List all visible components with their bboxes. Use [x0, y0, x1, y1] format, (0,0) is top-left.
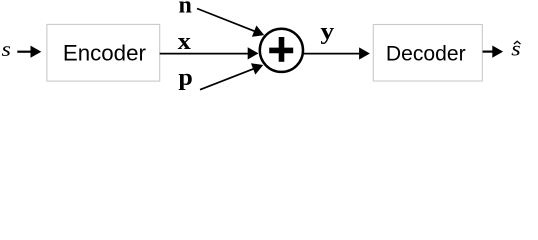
- arrowhead to s_hat: [492, 46, 503, 58]
- block Encoder: [47, 24, 160, 81]
- svg-text:y: y: [320, 17, 334, 44]
- label y: [320, 17, 334, 44]
- label x: [178, 27, 191, 55]
- plus sign vertical bar: [279, 37, 285, 62]
- arrowhead into Decoder: [359, 47, 370, 59]
- node s (input signal label): [1, 37, 11, 60]
- svg-text:n: n: [179, 0, 192, 18]
- summing junction circle: [260, 29, 303, 72]
- svg-text:Decoder: Decoder: [386, 42, 466, 65]
- arrowhead into summing node (p): [251, 59, 265, 74]
- svg-text:p: p: [178, 64, 192, 90]
- svg-text:Encoder: Encoder: [63, 40, 147, 65]
- svg-text:s: s: [511, 37, 521, 60]
- plus sign horizontal bar: [269, 48, 293, 54]
- node s_hat (reconstructed signal label): [511, 37, 521, 60]
- wire p (perturbation into summing node): [200, 69, 254, 90]
- arrowhead into summing node (n): [252, 25, 267, 40]
- wire Decoder to s_hat: [483, 50, 493, 52]
- block Decoder: [373, 25, 482, 82]
- wire x (Encoder to summing node): [160, 53, 250, 55]
- label p: [178, 64, 192, 90]
- svg-text:s: s: [1, 37, 11, 60]
- wire n (noise into summing node): [197, 9, 256, 32]
- arrowhead into Encoder: [31, 46, 42, 58]
- wire y (summing node to Decoder): [304, 53, 361, 55]
- svg-text:x: x: [178, 27, 191, 55]
- arrowhead into summing node (x): [248, 47, 259, 59]
- wire s to Encoder: [17, 51, 32, 53]
- hat of s_hat: [514, 41, 521, 44]
